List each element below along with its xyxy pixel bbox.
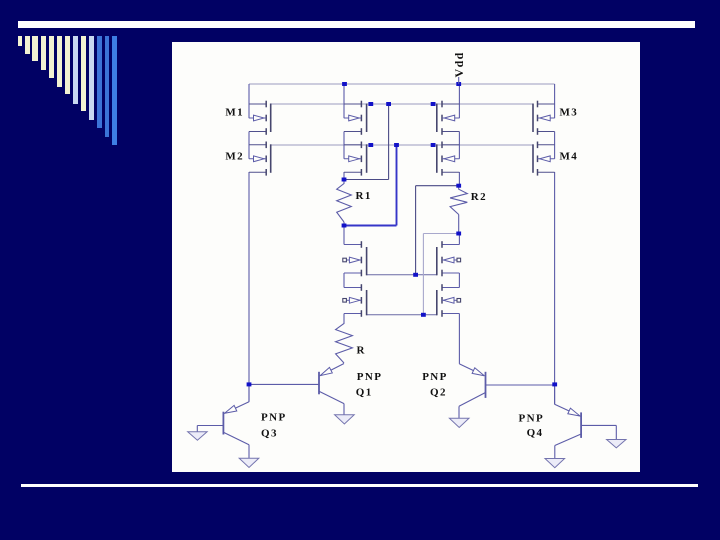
svg-text:M1: M1	[225, 107, 244, 119]
svg-text:Q1: Q1	[356, 386, 373, 398]
svg-text:PNP: PNP	[357, 371, 383, 383]
svg-text:R2: R2	[471, 191, 487, 203]
svg-text:PNP: PNP	[422, 371, 448, 383]
svg-text:M4: M4	[560, 151, 579, 163]
svg-text:PNP: PNP	[519, 413, 545, 425]
svg-text:PNP: PNP	[261, 412, 287, 424]
svg-text:M2: M2	[225, 151, 244, 163]
svg-text:R1: R1	[356, 190, 372, 202]
svg-text:R: R	[357, 345, 366, 357]
svg-text:Q3: Q3	[261, 428, 278, 440]
svg-text:Q4: Q4	[527, 427, 544, 439]
svg-text:Vdd: Vdd	[452, 51, 466, 77]
svg-text:M3: M3	[560, 107, 579, 119]
svg-text:Q2: Q2	[430, 386, 447, 398]
